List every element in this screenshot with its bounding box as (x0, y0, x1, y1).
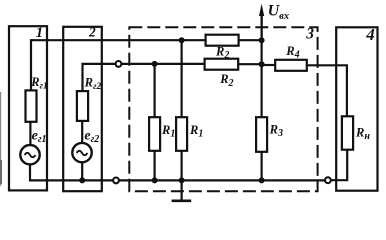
wire R1b top lead (181, 40, 183, 117)
wire terminal to R2b (122, 63, 205, 65)
resistor R1b (176, 117, 187, 151)
ground (181, 180, 183, 200)
wire R4 to load top (307, 65, 347, 116)
wire source 2 internal (81, 121, 83, 143)
resistor R4 (275, 60, 307, 71)
node dot row1 R1b (179, 37, 185, 43)
resistor Rn (load) (342, 116, 353, 149)
node dot R1a bottom (152, 177, 158, 183)
wire R1a bottom lead (154, 151, 156, 181)
resistor R1a (149, 117, 160, 151)
box 4 (load enclosure) (336, 27, 377, 190)
node dot row2 main (259, 61, 265, 67)
resistor R3 (256, 117, 267, 152)
wire terminal to load bottom (331, 150, 347, 181)
scan artifact left edge (0, 92, 2, 186)
box 2 (source 2 enclosure) (63, 27, 102, 191)
wire main vertical node column (261, 15, 263, 117)
wire R1b bottom lead (181, 151, 183, 181)
node dot R1b bottom (179, 177, 185, 183)
svg-text:3: 3 (305, 25, 314, 42)
wire source 1 internal (29, 122, 31, 146)
resistor R2a (206, 35, 239, 46)
arrow Uvx (261, 13, 263, 40)
node dot eg2 bottom (79, 177, 85, 183)
source eg2 (72, 143, 91, 162)
wire R3 bottom lead (261, 152, 263, 181)
wire row1 from source 1 to R2a (31, 40, 206, 90)
wire node to R4 (261, 64, 276, 66)
wire R1a top lead (154, 64, 156, 117)
wire row2 from source 2 to terminal (83, 64, 116, 91)
resistor Rg1 (26, 90, 37, 121)
source eg1 (20, 145, 39, 164)
box 3 (dashed two-port network) (129, 27, 317, 191)
wire R2b right to node (238, 63, 262, 65)
node dot R3 bottom (259, 177, 265, 183)
wire R2a right to node (239, 39, 263, 41)
terminal row2 left (116, 61, 122, 67)
wire source 2 bottom lead (81, 162, 83, 180)
node dot row1 main (259, 37, 265, 43)
wire bottom bus (119, 179, 325, 181)
node dot row2 R1a (152, 61, 158, 67)
resistor R2b (205, 59, 239, 70)
wire source 1 bottom lead (30, 164, 115, 180)
svg-text:4: 4 (365, 25, 375, 44)
terminal bottom left (113, 178, 119, 184)
svg-text:2: 2 (88, 25, 96, 40)
box 1 (source 1 enclosure) (9, 26, 47, 190)
resistor Rg2 (77, 91, 88, 121)
svg-text:1: 1 (36, 25, 44, 41)
terminal bottom right (325, 177, 331, 183)
